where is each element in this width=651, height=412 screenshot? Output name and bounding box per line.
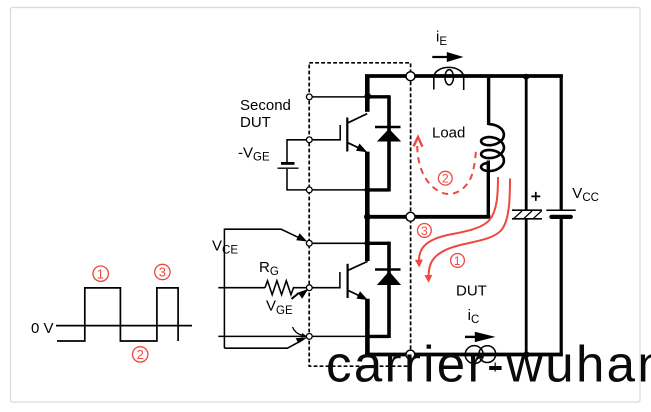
transistor Q2 (DUT IGBT) gate lead	[310, 272, 340, 288]
svg-text:0 V: 0 V	[31, 320, 54, 337]
battery BT1 (VCC) positive plate	[546, 209, 575, 211]
terminal node Q2 gate	[306, 285, 312, 291]
red current path 1 with down arrow	[429, 179, 510, 277]
transistor Q2 emitter lead	[349, 291, 364, 298]
VGE probe arrow to gate	[292, 293, 299, 299]
wire load branch upper	[487, 75, 490, 125]
svg-text:3: 3	[159, 265, 166, 280]
svg-text:3: 3	[421, 224, 428, 238]
svg-text:RG: RG	[259, 259, 279, 278]
svg-text:2: 2	[137, 347, 144, 362]
terminal node Q2 collector	[306, 240, 312, 246]
diode D1 triangle	[378, 130, 400, 142]
wire Q2 collector sense	[310, 242, 368, 244]
svg-text:iC: iC	[468, 307, 480, 326]
junction dot phase node	[364, 213, 371, 220]
junction dot Q2 collector node	[364, 240, 370, 246]
circled 2 (red path)	[438, 171, 452, 185]
wire load branch lower	[487, 161, 490, 217]
circled 1 (waveform)	[93, 266, 108, 281]
wire capacitor C1 branch lower	[525, 220, 528, 355]
VGE probe curved arrow to emitter	[293, 327, 303, 335]
wire diode D1 bottom elbow	[367, 188, 389, 191]
terminal node module top	[406, 72, 415, 81]
wire Q1 collector sense	[310, 96, 368, 98]
iE current arrow	[432, 56, 449, 58]
current transformer CT2 (iC probe)	[465, 346, 483, 364]
terminal node Q2 emitter	[306, 334, 312, 340]
waveform baseline	[56, 325, 192, 327]
transistor Q2 collector lead	[348, 261, 367, 270]
current transformer CT1 (iE probe)	[434, 67, 464, 77]
diode D1 cathode bar	[375, 126, 401, 129]
wire bottom rail (node N)	[365, 353, 563, 357]
waveform square pulses	[57, 288, 178, 341]
svg-text:Second: Second	[240, 97, 291, 114]
wire VCE probe vertical	[223, 229, 225, 349]
battery BT2 (-VGE) positive plate	[278, 167, 299, 169]
transistor Q1 (Second DUT IGBT) gate lead	[310, 125, 341, 140]
svg-text:Load: Load	[432, 124, 465, 141]
circled 1 (red path)	[451, 254, 465, 268]
junction dot C1 top node	[523, 74, 529, 80]
red current path 3 with down arrow	[419, 177, 498, 263]
svg-text:1: 1	[97, 266, 104, 281]
wire VCE probe return to emitter	[224, 340, 303, 349]
wire VCC branch upper	[560, 75, 563, 210]
svg-text:DUT: DUT	[456, 282, 487, 299]
transistor Q1 body bar	[346, 118, 348, 152]
svg-text:1: 1	[454, 254, 461, 268]
svg-text:VGE: VGE	[266, 298, 293, 317]
junction dot C1 bottom node	[523, 351, 529, 357]
transistor Q1 emitter arrow	[356, 144, 367, 153]
wire capacitor C1 branch upper	[525, 75, 528, 210]
diode D2 triangle	[378, 272, 400, 285]
diode D1 branch wire	[387, 95, 391, 191]
svg-text:VCC: VCC	[572, 185, 599, 204]
svg-text:DUT: DUT	[240, 114, 271, 131]
circled 3 (red path)	[418, 224, 432, 238]
VCE probe arrow to collector	[224, 229, 301, 239]
wire diode D2 top elbow	[367, 242, 389, 245]
svg-text:2: 2	[442, 172, 449, 186]
wire diode D2 bottom elbow	[367, 335, 389, 338]
battery BT1 (VCC) negative plate	[551, 215, 570, 219]
terminal node module bottom	[406, 350, 415, 359]
junction dot Q1 collector node	[364, 93, 371, 100]
red dashed current path 2 with up arrow	[417, 146, 476, 194]
iC current arrow	[465, 336, 477, 338]
circled 3 (waveform)	[155, 264, 170, 279]
dashed module box	[309, 63, 410, 366]
wire top rail (node P)	[365, 74, 563, 78]
transistor Q1 collector lead	[348, 114, 367, 123]
svg-text:iE: iE	[436, 28, 447, 47]
terminal node Q1 collector	[306, 94, 312, 100]
terminal node module phase	[406, 212, 415, 221]
wire battery BT2 to Q1 gate terminal	[287, 140, 310, 162]
wire mid node (phase node)	[367, 215, 490, 219]
wire collector bus upper segment	[365, 75, 370, 112]
diode D2 cathode bar	[375, 268, 401, 271]
capacitor C1 top plate	[512, 209, 542, 211]
wire collector bus middle segment	[365, 152, 370, 261]
svg-text:carrier-wuhan: carrier-wuhan	[326, 336, 651, 393]
circled 2 (waveform)	[133, 347, 148, 362]
wire collector bus lower segment	[365, 299, 370, 357]
wire Q2 emitter sense	[218, 335, 367, 337]
wire Q1 emitter sense	[310, 189, 368, 191]
wire battery BT2 to Q1 emitter terminal	[287, 169, 310, 190]
wire VCC branch lower	[560, 218, 563, 356]
wire gate drive	[218, 287, 265, 289]
terminal node Q1 emitter	[306, 187, 312, 193]
inductor L1 (Load) coil	[481, 124, 504, 171]
capacitor C1 bottom plate	[512, 218, 542, 220]
diode D2 branch wire	[387, 242, 391, 338]
transistor Q2 emitter arrow	[357, 291, 368, 300]
resistor RG zigzag	[265, 281, 307, 295]
transistor Q2 body bar	[347, 264, 349, 298]
transistor Q1 emitter lead	[348, 143, 364, 150]
capacitor C1 plus polarity mark	[531, 192, 540, 201]
junction dot Q1 emitter node	[364, 187, 370, 193]
capacitor C1 hatch marks	[514, 211, 542, 218]
battery BT2 (-VGE) negative plate	[281, 162, 295, 165]
terminal node Q1 gate	[306, 137, 312, 143]
svg-text:-VGE: -VGE	[238, 144, 270, 163]
wire diode D1 top elbow	[367, 95, 389, 98]
